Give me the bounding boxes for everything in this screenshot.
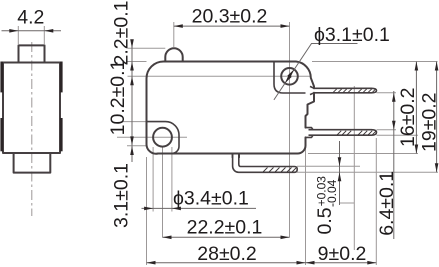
internal corner line top-right <box>274 62 306 94</box>
bottom terminal feet <box>232 154 239 158</box>
dimension 20.3 arrows <box>174 24 290 28</box>
ext line bottom terminal bottom <box>297 171 438 173</box>
main view: button center extension <box>173 22 175 47</box>
ext line boss top left <box>122 121 147 123</box>
main view: phi3.1 hole vertical centerline <box>289 22 291 238</box>
dimension 0.5 text <box>314 176 339 235</box>
ext line button top left <box>128 47 166 49</box>
dimension 2.2 arrows <box>130 39 134 70</box>
side view right tab upper <box>60 62 63 93</box>
dimension 3.1 arrows <box>130 146 134 155</box>
svg-text:ϕ3.4±0.1: ϕ3.4±0.1 <box>173 188 249 210</box>
ext line terminal2 top right <box>377 129 397 131</box>
ext line body right bottom <box>305 140 307 265</box>
main body outline <box>146 62 314 154</box>
hole phi3.4 <box>153 128 172 147</box>
svg-text:20.3±0.2: 20.3±0.2 <box>192 6 268 28</box>
side view left tab upper <box>0 62 3 93</box>
svg-text:10.2±0.1: 10.2±0.1 <box>107 60 129 136</box>
dimension 6.4 line <box>393 91 395 239</box>
dimension 22.2 arrows <box>163 236 290 240</box>
side view centerline <box>31 42 33 216</box>
left dimension chain line <box>131 40 133 162</box>
svg-text:19±0.2: 19±0.2 <box>419 93 439 153</box>
terminal 2 base <box>306 128 314 138</box>
button plunger <box>165 48 182 61</box>
ext line body bottom right <box>308 153 418 155</box>
internal boss bottom-left <box>147 122 180 154</box>
main view: phi3.4 hole vertical centerline <box>162 147 164 238</box>
phi3.1 label leader <box>274 44 358 100</box>
bottom terminal hatch <box>263 168 296 173</box>
main view: phi3.4 hole horizontal centerline <box>117 136 187 138</box>
dimension 4.2 extension lines <box>18 26 44 44</box>
tick near 0.5 leader <box>340 202 354 204</box>
svg-text:0.5+0.03-0.04: 0.5+0.03-0.04 <box>314 176 339 235</box>
terminal 1 base <box>310 86 314 94</box>
ext line terminal2 bottom right <box>377 134 419 136</box>
dimension 22.2 line <box>163 236 290 238</box>
ext line bottom terminal top <box>297 165 360 167</box>
svg-text:ϕ3.1±0.1: ϕ3.1±0.1 <box>314 24 390 46</box>
ext line terminal hole vertical <box>353 86 355 250</box>
dimension 6.4 arrows <box>392 93 396 130</box>
dimension 28 line <box>147 262 306 264</box>
phi3.1 leader arrows <box>285 69 294 83</box>
dimension 19 arrows <box>435 62 439 173</box>
side view plunger bump <box>19 45 45 62</box>
svg-text:9±0.2: 9±0.2 <box>318 243 367 265</box>
ext line terminal1 bottom right <box>377 92 397 94</box>
side view left tab lower <box>0 118 3 151</box>
dimension 16 line <box>415 62 417 154</box>
main view: phi3.1 hole horizontal centerline <box>128 75 311 77</box>
ext line body top right <box>312 61 438 63</box>
dimension 4.2 line <box>2 30 62 32</box>
svg-text:4.2: 4.2 <box>17 7 44 29</box>
dimension 9 arrows <box>306 261 377 265</box>
terminal 2 hatch <box>337 131 376 135</box>
dimension 28 arrows <box>147 261 306 265</box>
ext line body top left <box>128 61 147 63</box>
ext line body left bottom <box>146 157 148 265</box>
ext line phi3.4 left edge <box>152 147 154 212</box>
dimension 10.2 arrows <box>130 76 134 145</box>
svg-text:3.1±0.1: 3.1±0.1 <box>111 163 133 228</box>
ext line body bottom left <box>127 145 147 147</box>
dimension 4.2 arrows <box>9 29 53 33</box>
dimension 0.5 line <box>339 141 341 205</box>
svg-text:6.4±0.1: 6.4±0.1 <box>376 171 398 236</box>
dimension 0.5 arrows <box>338 157 342 181</box>
dimension 20.3 line <box>174 25 290 27</box>
bottom terminal (common) <box>233 154 298 173</box>
svg-text:2.2±0.1: 2.2±0.1 <box>111 1 133 66</box>
dimension 9 line <box>306 262 377 264</box>
terminal 1 hatch <box>333 89 376 93</box>
svg-text:22.2±0.1: 22.2±0.1 <box>187 217 263 239</box>
dimension phi3.4 line <box>142 207 257 209</box>
dimension phi3.4 arrows <box>144 207 181 211</box>
svg-text:16±0.2: 16±0.2 <box>397 88 419 148</box>
terminal 2 bar <box>309 130 377 136</box>
hole phi3.1 <box>281 68 298 85</box>
side view right tab lower <box>60 118 63 151</box>
side view base <box>14 153 51 173</box>
svg-text:28±0.2: 28±0.2 <box>197 243 257 265</box>
terminal 1 bar <box>314 88 377 93</box>
dimension 19 line <box>436 62 438 173</box>
dimension 16 arrows <box>415 62 419 154</box>
ext line terminal tip bottom <box>375 138 377 265</box>
ext line phi3.4 right edge <box>171 147 173 212</box>
side view body <box>3 63 60 154</box>
